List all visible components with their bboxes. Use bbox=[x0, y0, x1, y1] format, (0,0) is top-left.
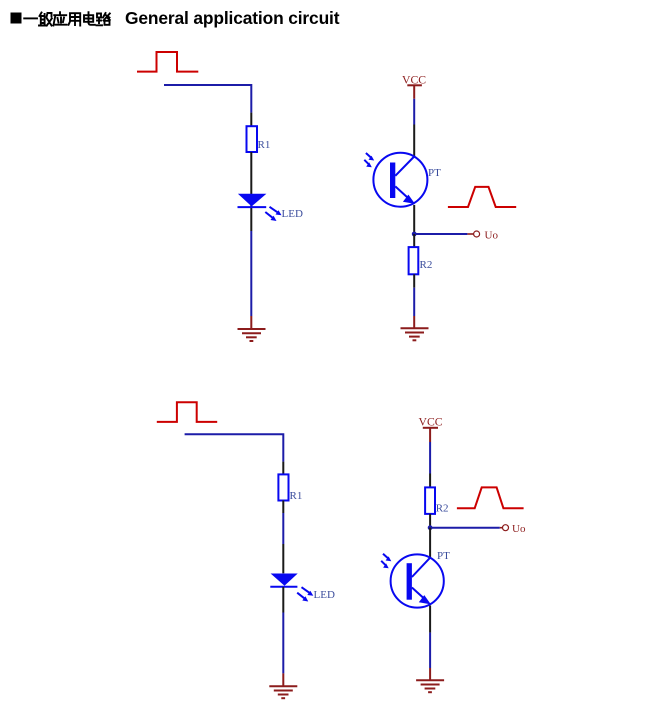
wire LED pin top (black) bbox=[282, 544, 284, 573]
resistor R1 (top-left) bbox=[247, 126, 258, 152]
svg-text:Uo: Uo bbox=[512, 523, 526, 535]
wire ground stem (dark red) bbox=[282, 673, 284, 686]
LED label (top-left) bbox=[282, 208, 303, 220]
PT label (bottom-right) bbox=[437, 550, 450, 562]
一 bbox=[24, 17, 37, 19]
output pulse waveform (bottom-right) bbox=[457, 487, 524, 508]
wire R1 to LED (black) bbox=[250, 152, 252, 231]
wire emitter pin (black) bbox=[429, 606, 431, 633]
VCC label (bottom-right) bbox=[419, 416, 443, 429]
般 bbox=[39, 13, 52, 26]
wire (bottom-left input to R1) bbox=[185, 434, 284, 461]
resistor R1 label bbox=[258, 139, 271, 151]
svg-text:PT: PT bbox=[437, 550, 450, 562]
wire R1 to LED (blue) bbox=[282, 513, 284, 544]
ground (bottom-right) bbox=[416, 680, 444, 692]
wire VCC to R2 (blue) bbox=[429, 442, 431, 474]
wire R1 pin bottom (black) bbox=[282, 501, 284, 514]
wire output stub (dark red) bbox=[467, 233, 473, 235]
ground (top-right) bbox=[401, 328, 429, 340]
resistor R2 (bottom-right) bbox=[425, 487, 435, 514]
wire to ground (blue) bbox=[429, 633, 431, 668]
wire emitter pin to node (black) bbox=[413, 205, 415, 234]
svg-text:VCC: VCC bbox=[402, 74, 426, 87]
node junction dot bbox=[412, 232, 417, 237]
PT light arrows (top-right) bbox=[364, 153, 374, 167]
wire node to R2 (black) bbox=[413, 234, 415, 247]
resistor R2 label (bottom-right) bbox=[436, 503, 449, 515]
wire pin R1 top (black) bbox=[282, 462, 284, 475]
wire LED to ground (blue) bbox=[250, 231, 252, 316]
VCC symbol (top-right) bbox=[407, 85, 422, 99]
wire ground stem (dark red) bbox=[413, 316, 415, 328]
svg-text:VCC: VCC bbox=[419, 416, 443, 429]
svg-text:Uo: Uo bbox=[485, 230, 499, 242]
wire LED to ground (black then blue) bbox=[282, 587, 284, 613]
Uo label (top-right) bbox=[485, 230, 499, 242]
用 bbox=[69, 13, 81, 25]
resistor R1 label (bottom-left) bbox=[290, 490, 303, 502]
路 bbox=[97, 13, 110, 25]
wire node to output (blue) bbox=[430, 527, 500, 529]
phototransistor PT (top-right) bbox=[373, 153, 427, 207]
svg-text:R1: R1 bbox=[290, 490, 303, 502]
LED D1 (bottom-left) bbox=[270, 574, 297, 587]
wire (blue) bbox=[282, 613, 284, 674]
wire R2 to ground (blue) bbox=[413, 288, 415, 316]
LED light arrows (bottom-left) bbox=[297, 587, 313, 601]
ground (top-left) bbox=[238, 329, 266, 341]
output terminal circle Uo (bottom-right) bbox=[503, 525, 509, 531]
svg-text:LED: LED bbox=[314, 589, 335, 601]
wire (top-left input to R1) bbox=[164, 85, 251, 113]
PT light arrows (bottom-right) bbox=[381, 554, 391, 569]
resistor R1 (bottom-left) bbox=[278, 474, 288, 500]
VCC symbol (bottom-right) bbox=[423, 428, 438, 442]
电 bbox=[84, 12, 95, 25]
phototransistor PT (bottom-right) bbox=[391, 554, 444, 607]
wire node to output (blue) bbox=[414, 233, 467, 235]
wire ground stem (dark red) bbox=[250, 316, 252, 329]
LED light arrows (top-left) bbox=[265, 207, 281, 221]
title Chinese text 一般应用电路 (drawn strokes) bbox=[24, 12, 110, 25]
应 bbox=[53, 12, 66, 25]
wire collector pin (black) bbox=[413, 125, 415, 157]
svg-text:PT: PT bbox=[428, 167, 441, 179]
svg-text:R2: R2 bbox=[420, 259, 433, 271]
wire pin R1 top (black) bbox=[250, 113, 252, 127]
wire node to collector pin (black) bbox=[429, 528, 431, 558]
svg-text:LED: LED bbox=[282, 208, 303, 220]
node junction dot (bottom-right) bbox=[428, 525, 433, 530]
output terminal circle Uo bbox=[474, 231, 480, 237]
pulse waveform (top-left input) bbox=[137, 52, 198, 72]
wire R2 pin bottom (black) bbox=[413, 274, 415, 287]
svg-text:R1: R1 bbox=[258, 139, 271, 151]
svg-text:R2: R2 bbox=[436, 503, 449, 515]
Uo label (bottom-right) bbox=[512, 523, 526, 535]
PT label (top-right) bbox=[428, 167, 441, 179]
VCC label (top-right) bbox=[402, 74, 426, 87]
output pulse waveform (top-right) bbox=[448, 187, 516, 207]
wire R2 pin top (black) bbox=[429, 474, 431, 488]
resistor R2 label bbox=[420, 259, 433, 271]
ground (bottom-left) bbox=[269, 686, 297, 698]
title bullet square bbox=[11, 13, 22, 24]
wire ground stem (dark red) bbox=[429, 668, 431, 680]
wire output stub (dark red) bbox=[500, 527, 503, 529]
resistor R2 (top-right) bbox=[409, 247, 419, 274]
LED D1 (top-left) bbox=[238, 194, 267, 207]
wire VCC to transistor (blue) bbox=[413, 99, 415, 125]
title English text bbox=[125, 8, 339, 29]
LED label (bottom-left) bbox=[314, 589, 335, 601]
pulse waveform (bottom-left input) bbox=[157, 402, 217, 422]
wire R2 to node (black) bbox=[429, 514, 431, 528]
